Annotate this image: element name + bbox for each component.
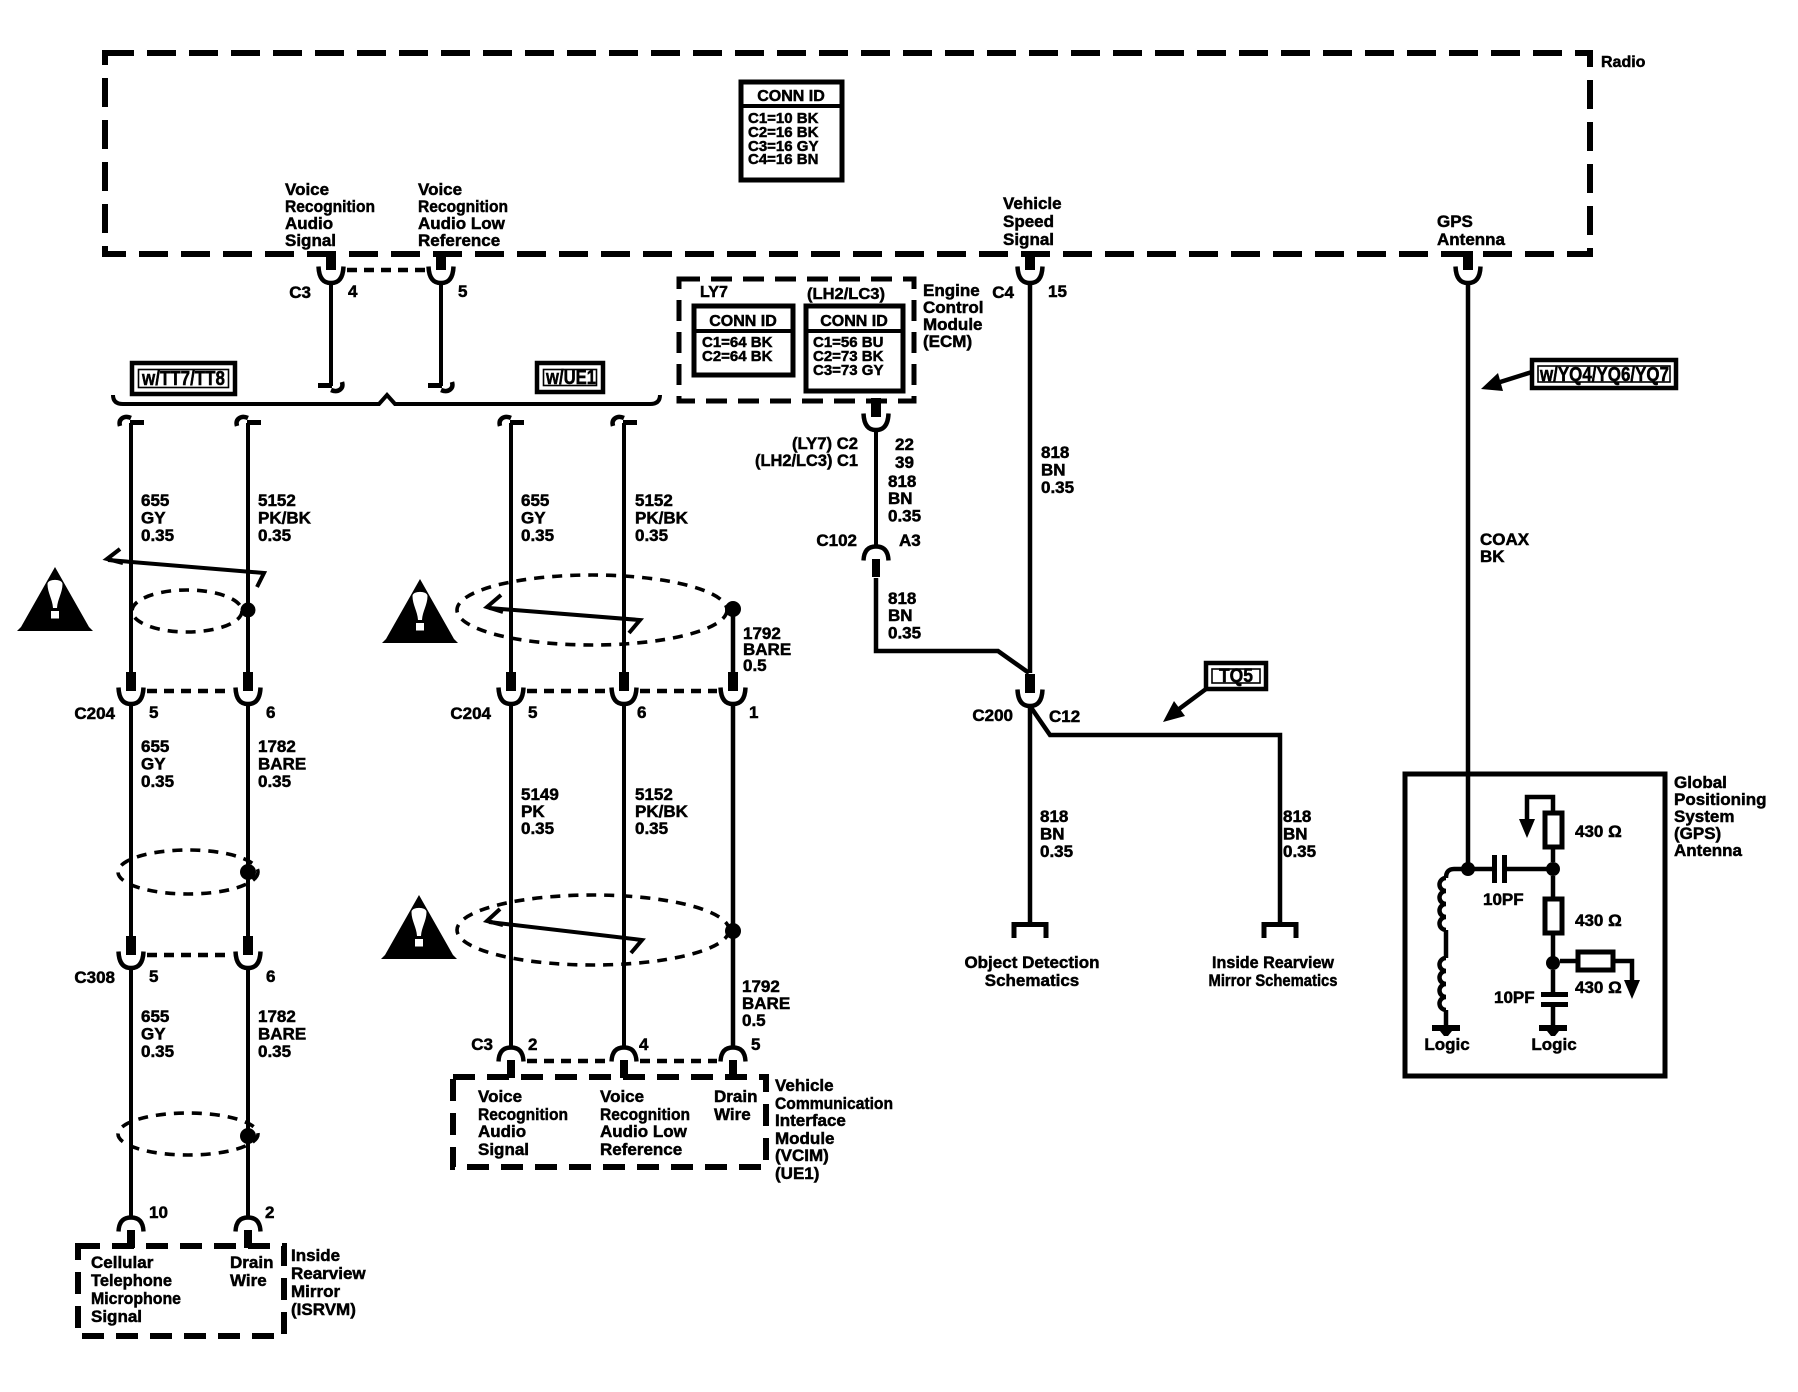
terminal to Inside Rearview — [1264, 925, 1296, 939]
svg-text:5: 5 — [458, 282, 467, 301]
svg-text:0.35: 0.35 — [141, 526, 174, 545]
svg-text:655: 655 — [141, 1007, 169, 1026]
svg-text:5: 5 — [751, 1035, 760, 1054]
svg-text:0.35: 0.35 — [141, 1042, 174, 1061]
svg-text:6: 6 — [266, 967, 275, 986]
shield arrow 1 — [107, 549, 123, 563]
svg-text:PK/BK: PK/BK — [635, 509, 689, 528]
svg-text:Interface: Interface — [775, 1111, 846, 1130]
label: Engine Control Module (ECM) — [923, 281, 983, 351]
svg-text:0.35: 0.35 — [635, 819, 668, 838]
svg-text:Cellular: Cellular — [91, 1253, 154, 1272]
svg-text:PK/BK: PK/BK — [258, 509, 312, 528]
warning triangle 1 — [17, 567, 93, 631]
svg-text:BN: BN — [1283, 825, 1308, 844]
svg-text:Mirror: Mirror — [291, 1282, 341, 1301]
svg-text:Vehicle: Vehicle — [775, 1076, 834, 1095]
svg-text:1782: 1782 — [258, 737, 296, 756]
shield ellipse 5 — [118, 1113, 258, 1155]
svg-text:Drain: Drain — [714, 1087, 757, 1106]
svg-text:C4=16 BN: C4=16 BN — [748, 151, 818, 168]
svg-text:430 Ω: 430 Ω — [1575, 911, 1622, 930]
wire 655 GY col3 top — [500, 417, 524, 426]
wire 818 BN ECM to C102 — [874, 430, 878, 547]
svg-text:C200: C200 — [972, 706, 1013, 725]
wire 818 BN to Object Detection — [1028, 706, 1033, 925]
connector C102 A3 — [864, 547, 889, 578]
wire: radio pin4 to brace — [329, 283, 333, 386]
svg-text:10PF: 10PF — [1494, 988, 1535, 1007]
label: Inside Rearview Mirror (ISRVM) — [291, 1246, 366, 1319]
svg-text:Inside Rearview: Inside Rearview — [1212, 953, 1335, 972]
svg-text:Voice: Voice — [478, 1087, 522, 1106]
radio module box — [105, 53, 1590, 254]
resistor R3 430 ohm (horizontal) — [1578, 952, 1613, 970]
svg-text:5: 5 — [528, 703, 537, 722]
YQ arrow — [1497, 372, 1532, 383]
wire junction to capacitor — [1468, 867, 1492, 872]
wire branch to Inside Rearview Mirror — [1030, 706, 1280, 925]
shield arrow 2 — [487, 595, 503, 612]
svg-text:0.5: 0.5 — [743, 656, 767, 675]
wire capacitor to resistor node — [1507, 867, 1553, 872]
svg-text:CONN ID: CONN ID — [757, 88, 825, 105]
svg-text:C4: C4 — [992, 283, 1014, 302]
svg-text:Signal: Signal — [285, 231, 336, 250]
svg-text:0.35: 0.35 — [258, 526, 291, 545]
svg-text:Antenna: Antenna — [1437, 230, 1506, 249]
svg-text:22: 22 — [895, 435, 914, 454]
wire 5152 PK/BK col4 top — [613, 417, 637, 426]
svg-text:(UE1): (UE1) — [775, 1164, 819, 1183]
dashed connector link C3 — [347, 268, 426, 273]
connector ECM C2/C1 — [864, 398, 889, 430]
wire 5152 PK/BK col2 top — [237, 417, 261, 426]
svg-text:BARE: BARE — [258, 1025, 306, 1044]
node: GPS Antenna — [1437, 212, 1506, 249]
wire 655 GY col1 top — [120, 417, 144, 426]
CONN ID table (radio) — [741, 82, 842, 180]
svg-text:Rearview: Rearview — [291, 1264, 366, 1283]
label: Vehicle Communication Interface Module (VCIM) (UE1) — [775, 1076, 893, 1183]
connector C308 pin5 — [119, 936, 144, 968]
svg-text:10: 10 — [149, 1203, 168, 1222]
svg-text:Voice: Voice — [600, 1087, 644, 1106]
svg-text:Antenna: Antenna — [1674, 841, 1743, 860]
connector C200 C12 — [1018, 674, 1043, 706]
shield ellipse 4 — [118, 850, 258, 894]
svg-text:C2=64 BK: C2=64 BK — [702, 348, 773, 365]
svg-text:Audio Low: Audio Low — [600, 1122, 688, 1141]
connector C204 pin6 (mid) — [612, 672, 637, 704]
svg-text:w/YQ4/YQ6/YQ7: w/YQ4/YQ6/YQ7 — [1539, 364, 1669, 386]
node: Vehicle Speed Signal — [1003, 194, 1062, 249]
svg-text:15: 15 — [1048, 282, 1067, 301]
connector ISRVM pin2 — [236, 1218, 261, 1249]
connector C204 pin6 (left) — [236, 672, 261, 704]
terminal to Object Detection — [1014, 925, 1046, 939]
TQ5 option box — [1206, 663, 1266, 689]
svg-text:LY7: LY7 — [700, 284, 728, 301]
svg-text:BN: BN — [1041, 461, 1066, 480]
shield arrow 3 — [487, 909, 503, 925]
dashed connector links C204 (mid) — [527, 689, 608, 694]
svg-text:Wire: Wire — [230, 1271, 267, 1290]
connector C3 pin4 (VCIM) — [612, 1048, 637, 1079]
node: divider bottom — [1546, 956, 1560, 970]
svg-text:5: 5 — [149, 703, 158, 722]
ISRVM module box — [78, 1246, 284, 1336]
node: Drain Wire (ISRVM) — [230, 1253, 273, 1290]
svg-text:5: 5 — [149, 967, 158, 986]
option label w/TT7/TT8 — [132, 363, 235, 394]
resistor R1 430 ohm — [1545, 813, 1562, 847]
svg-text:Reference: Reference — [600, 1140, 682, 1159]
svg-text:0.35: 0.35 — [1283, 842, 1316, 861]
label: Global Positioning System (GPS) Antenna — [1674, 773, 1767, 860]
CONN ID table LY7 — [694, 306, 793, 375]
svg-text:(ECM): (ECM) — [923, 332, 972, 351]
TQ5 arrow — [1175, 689, 1206, 712]
shield junction dot 2 — [725, 601, 741, 617]
ECM module box — [679, 279, 914, 401]
svg-text:0.35: 0.35 — [1041, 478, 1074, 497]
wire 5149 PK — [509, 704, 513, 1048]
wire to ground L — [1444, 1010, 1449, 1026]
svg-text:C308: C308 — [74, 968, 115, 987]
svg-text:(LH2/LC3) C1: (LH2/LC3) C1 — [755, 451, 858, 470]
svg-text:10PF: 10PF — [1483, 890, 1524, 909]
svg-text:0.35: 0.35 — [141, 772, 174, 791]
svg-text:Microphone: Microphone — [91, 1289, 181, 1308]
wire 655 GY col1 mid — [129, 704, 133, 937]
svg-text:430 Ω: 430 Ω — [1575, 978, 1622, 997]
wire cap to ground — [1551, 1007, 1556, 1026]
svg-text:4: 4 — [348, 282, 358, 301]
svg-text:GY: GY — [141, 509, 166, 528]
svg-text:818: 818 — [1041, 443, 1069, 462]
node: Voice Recognition Audio Signal (VCIM) — [478, 1087, 568, 1159]
svg-text:(VCIM): (VCIM) — [775, 1146, 829, 1165]
svg-text:BK: BK — [1480, 547, 1505, 566]
svg-text:655: 655 — [141, 737, 169, 756]
harness brace — [113, 395, 660, 404]
svg-text:Schematics: Schematics — [985, 971, 1080, 990]
wire 655 GY col1 bottom — [129, 968, 133, 1218]
svg-text:Audio: Audio — [478, 1122, 526, 1141]
GPS antenna internal box — [1405, 774, 1665, 1076]
svg-text:Speed: Speed — [1003, 212, 1054, 231]
shield junction dot 3 — [725, 923, 741, 939]
node: Cellular Telephone Microphone Signal — [91, 1253, 181, 1326]
svg-text:Logic: Logic — [1531, 1035, 1576, 1054]
svg-text:Logic: Logic — [1424, 1035, 1469, 1054]
svg-text:0.35: 0.35 — [888, 507, 921, 526]
svg-text:818: 818 — [1283, 807, 1311, 826]
wire 1782 BARE col2 bottom — [246, 968, 250, 1218]
connector C3 pin 4 (radio) — [319, 251, 344, 283]
svg-text:0.35: 0.35 — [1040, 842, 1073, 861]
connector GPS antenna lead (radio) — [1456, 251, 1481, 283]
node: Voice Recognition Audio Low Reference — [418, 180, 508, 250]
node: resistor divider top — [1546, 862, 1560, 876]
wire between inductors — [1444, 930, 1449, 958]
shield ellipse 3 — [457, 895, 729, 965]
warning triangle 2 — [382, 579, 458, 643]
svg-text:4: 4 — [639, 1035, 649, 1054]
capacitor 10PF (coupling) — [1492, 855, 1497, 883]
svg-text:C204: C204 — [74, 704, 115, 723]
svg-text:39: 39 — [895, 453, 914, 472]
svg-text:655: 655 — [141, 491, 169, 510]
svg-text:6: 6 — [637, 703, 646, 722]
svg-text:w/TT7/TT8: w/TT7/TT8 — [141, 368, 225, 390]
VCIM module box — [453, 1077, 766, 1167]
svg-text:Signal: Signal — [1003, 230, 1054, 249]
svg-text:Inside: Inside — [291, 1246, 340, 1265]
svg-text:Object Detection: Object Detection — [964, 953, 1099, 972]
svg-text:0.35: 0.35 — [258, 772, 291, 791]
svg-text:(LH2/LC3): (LH2/LC3) — [807, 286, 885, 303]
svg-text:C3: C3 — [471, 1035, 493, 1054]
svg-text:Telephone: Telephone — [91, 1271, 172, 1290]
svg-text:w/UE1: w/UE1 — [545, 367, 596, 389]
svg-text:Signal: Signal — [478, 1140, 529, 1159]
dashed connector link C308 — [147, 953, 232, 958]
coax wire GPS antenna — [1466, 283, 1471, 869]
svg-text:0.35: 0.35 — [635, 526, 668, 545]
svg-text:C3: C3 — [289, 283, 311, 302]
svg-text:6: 6 — [266, 703, 275, 722]
svg-text:430 Ω: 430 Ω — [1575, 822, 1622, 841]
svg-text:C204: C204 — [450, 704, 491, 723]
svg-text:Wire: Wire — [714, 1105, 751, 1124]
connector C204 pin5 (mid) — [499, 672, 524, 704]
svg-text:BARE: BARE — [258, 755, 306, 774]
warning triangle 3 — [381, 895, 457, 959]
svg-text:Signal: Signal — [91, 1307, 142, 1326]
capacitor 10PF (shunt) — [1551, 970, 1556, 992]
shield junction dot 1 — [241, 603, 256, 618]
svg-text:BN: BN — [888, 489, 913, 508]
connector ISRVM pin10 — [119, 1218, 144, 1249]
svg-text:C3=73 GY: C3=73 GY — [813, 362, 883, 379]
CONN ID table LH2/LC3 — [806, 306, 903, 391]
svg-text:0.5: 0.5 — [742, 1011, 766, 1030]
connector C204 pin1 (mid) — [721, 672, 746, 704]
svg-text:Drain: Drain — [230, 1253, 273, 1272]
svg-text:655: 655 — [521, 491, 549, 510]
shield junction dot 5 — [240, 1128, 256, 1144]
resistor R2 430 ohm — [1545, 899, 1562, 933]
svg-text:0.35: 0.35 — [888, 624, 921, 643]
svg-text:GY: GY — [141, 1025, 166, 1044]
option label w/YQ4/YQ6/YQ7 — [1532, 360, 1676, 388]
svg-text:2: 2 — [265, 1203, 274, 1222]
svg-text:5152: 5152 — [635, 491, 673, 510]
svg-text:Radio: Radio — [1601, 54, 1646, 71]
node: Drain Wire (VCIM) — [714, 1087, 757, 1124]
wire 818 BN C102 to C200 — [876, 578, 1029, 673]
drain wire 1792 lower — [731, 704, 736, 1048]
svg-text:TQ5: TQ5 — [1219, 666, 1253, 687]
wire 5152 PK/BK lower — [622, 704, 626, 1048]
shield ellipse 1 — [132, 590, 242, 632]
svg-text:0.35: 0.35 — [521, 526, 554, 545]
svg-text:2: 2 — [528, 1035, 537, 1054]
option label w/UE1 — [537, 363, 603, 392]
svg-text:CONN ID: CONN ID — [709, 313, 777, 330]
svg-text:Vehicle: Vehicle — [1003, 194, 1062, 213]
connector C204 pin5 (left) — [119, 672, 144, 704]
connector C3 pin2 (VCIM) — [499, 1048, 524, 1079]
inductor L2 — [1440, 958, 1447, 1010]
connector C308 pin6 — [236, 936, 261, 968]
svg-text:A3: A3 — [899, 531, 921, 550]
connector C3 pin5 (VCIM) — [721, 1048, 746, 1079]
ground (logic) left — [1432, 1028, 1460, 1036]
wire: radio pin5 to brace — [439, 283, 443, 386]
shield ellipse 2 — [457, 575, 727, 645]
ground (logic) right — [1539, 1028, 1567, 1036]
svg-text:BN: BN — [1040, 825, 1065, 844]
svg-text:0.35: 0.35 — [521, 819, 554, 838]
svg-text:1: 1 — [749, 703, 758, 722]
node: Voice Recognition Audio Signal — [285, 180, 375, 250]
svg-text:1782: 1782 — [258, 1007, 296, 1026]
dashed connector links C3 (VCIM) — [527, 1059, 608, 1064]
inductor L1 — [1440, 878, 1447, 930]
svg-text:CONN ID: CONN ID — [820, 313, 888, 330]
svg-text:(ISRVM): (ISRVM) — [291, 1300, 356, 1319]
svg-text:Mirror Schematics: Mirror Schematics — [1209, 971, 1338, 990]
svg-text:C12: C12 — [1049, 707, 1080, 726]
connector C3 pin 5 (radio) — [429, 251, 454, 283]
wire junction to inductor — [1446, 869, 1462, 878]
svg-text:5152: 5152 — [258, 491, 296, 510]
svg-text:GPS: GPS — [1437, 212, 1473, 231]
dashed connector link C204 — [147, 689, 232, 694]
svg-text:C102: C102 — [816, 531, 857, 550]
wire 1782 BARE col2 mid — [246, 704, 250, 937]
node: Voice Recognition Audio Low Reference (VCIM) — [600, 1087, 690, 1159]
svg-text:Reference: Reference — [418, 231, 500, 250]
svg-text:GY: GY — [521, 509, 546, 528]
connector C4 pin 15 (radio) — [1018, 251, 1043, 283]
wire 818 BN radio C4 to C200 — [1028, 283, 1033, 673]
svg-text:0.35: 0.35 — [258, 1042, 291, 1061]
svg-text:GY: GY — [141, 755, 166, 774]
node: coax junction — [1461, 862, 1475, 876]
svg-text:BN: BN — [888, 606, 913, 625]
svg-text:818: 818 — [1040, 807, 1068, 826]
drain wire 1792 to C204 pin1 — [731, 615, 736, 673]
shield junction dot 4 — [240, 864, 256, 880]
